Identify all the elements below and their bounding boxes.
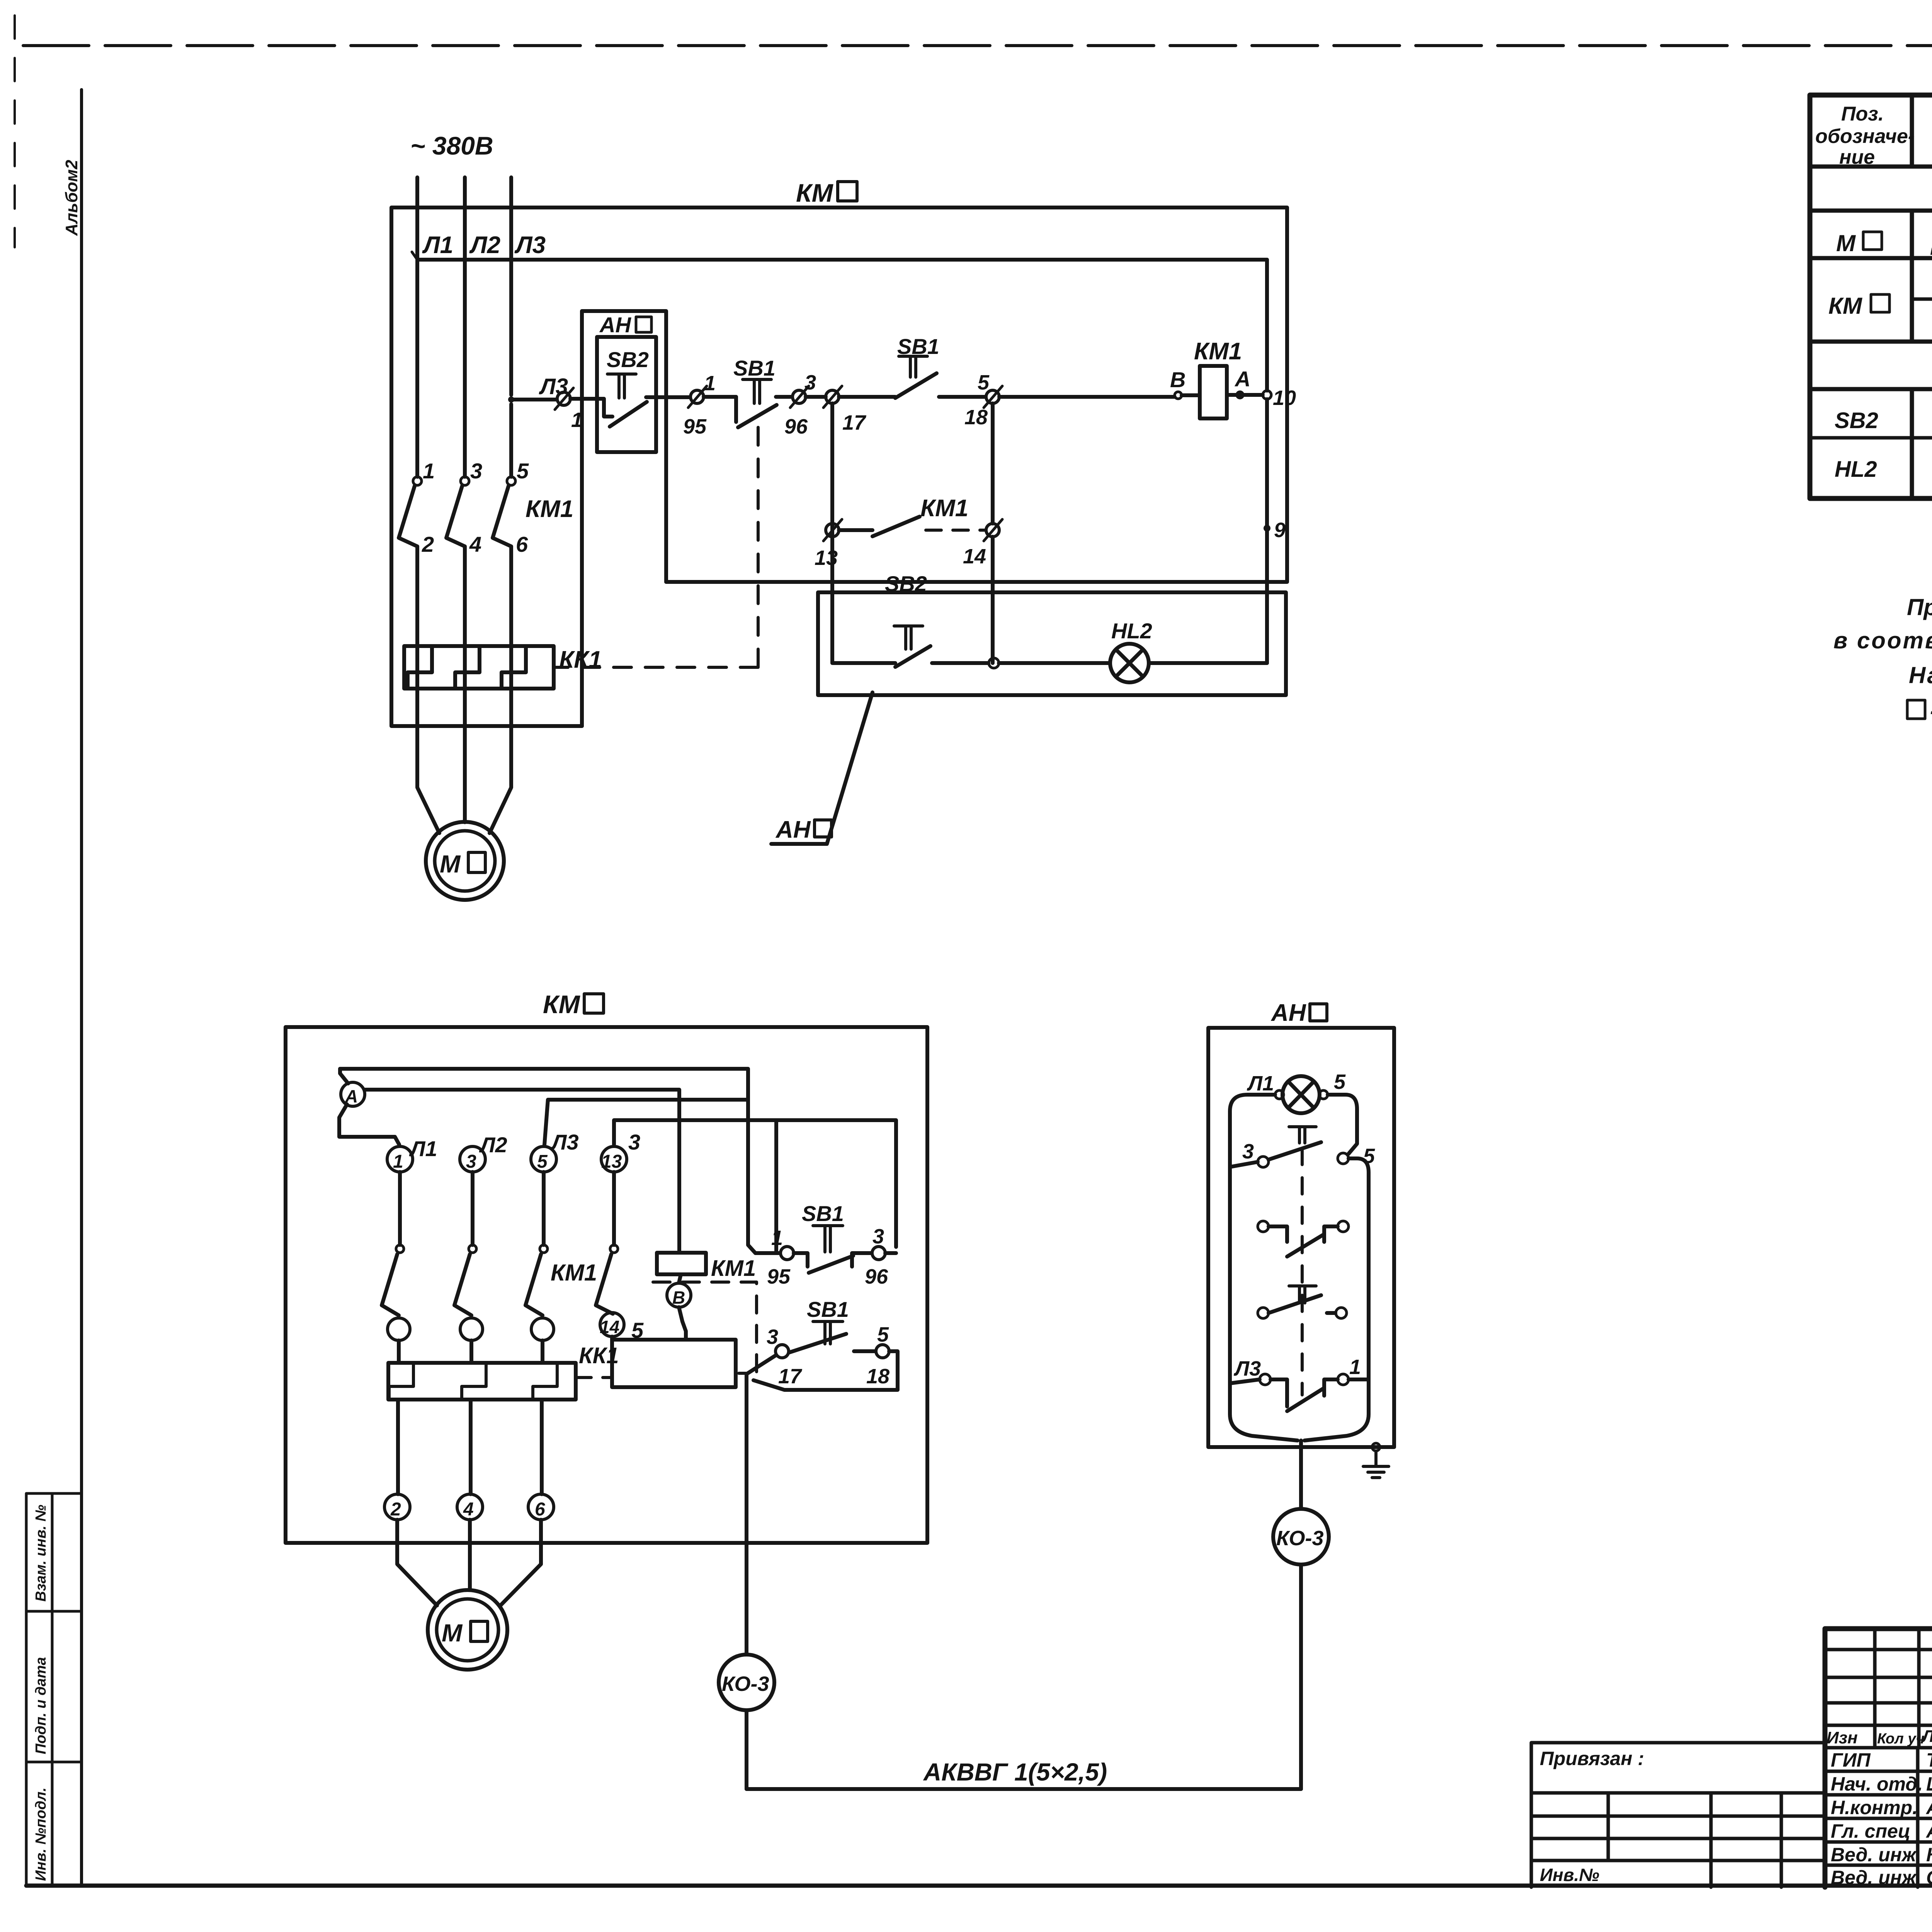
svg-text:- номер привода по однолине: - номер привода по однолинейной схеме . [1930,698,1932,724]
motor M circle bottom [428,1590,507,1670]
wire A up to bus W1 [340,1069,348,1083]
left rail wire [1230,1095,1298,1440]
pole wire 3 down [471,1172,474,1245]
KO-3 circle left [719,1655,774,1710]
SB2 contact step [604,399,612,417]
svg-text:3: 3 [767,1325,778,1349]
row1 wire from rail [1230,1162,1258,1167]
KK1 heater notch phase2 [462,1363,486,1400]
svg-text:Подп. и дата: Подп. и дата [33,1657,49,1754]
wire 95 to SB1 [704,395,736,399]
revision table verticals [1875,1629,1932,1887]
svg-text:HL2: HL2 [1111,619,1152,643]
svg-text:4: 4 [469,532,481,556]
phase line L3 top [509,177,513,395]
svg-text:М: М [440,850,461,878]
svg-text:М: М [1836,230,1856,256]
svg-text:SB2: SB2 [607,347,649,372]
KK1 heater notch phase1 [389,1363,413,1400]
svg-text:SB1: SB1 [733,356,776,380]
svg-text:Афонина: Афонина [1925,1820,1932,1842]
svg-text:обозначе-: обозначе- [1815,125,1915,148]
KM1 aux contact wire left [839,528,872,532]
terminal 1 slash circle [557,392,570,405]
table sub-line катушка split col2 [1912,298,1932,301]
ground terminal circle [1372,1443,1380,1451]
svg-text:Афонина: Афонина [1925,1797,1932,1818]
SB1 start fixed right [939,395,986,399]
svg-text:При монтаже установить пост: При монтаже установить посты управления … [1907,594,1932,620]
wire 17 down to KO-3 [745,1374,748,1655]
svg-text:1: 1 [1349,1355,1361,1379]
wire 17 column down [830,403,834,663]
KM1 main contact 3 [540,1245,548,1253]
wire KO-3 to cable [745,1710,748,1789]
phase line L2 top [463,177,467,477]
svg-text:В: В [672,1287,685,1308]
wire 14 to loop rect [610,1337,614,1340]
contactor coil KM1 [1200,366,1227,418]
pole wire 13 down [612,1172,616,1245]
svg-text:Касырев: Касырев [1926,1844,1932,1866]
junction circle lamp wire [989,658,999,668]
svg-text:АКВВГ 1(5×2,5): АКВВГ 1(5×2,5) [923,1758,1107,1786]
svg-text:1: 1 [393,1151,403,1172]
svg-text:14: 14 [600,1317,619,1337]
KM1 aux blade [872,517,920,536]
row4 wire to rail [1349,1378,1369,1381]
svg-text:Л3: Л3 [539,374,568,399]
contactor pole circle 1 [388,1318,410,1340]
SB1 stop blade [738,405,777,427]
row1 blade [1269,1142,1321,1160]
svg-text:КМ1: КМ1 [526,496,573,522]
svg-text:КО-3: КО-3 [722,1672,769,1696]
terminal 2 circle [384,1494,410,1520]
frame: top border dashed line [23,44,1932,47]
svg-text:4: 4 [463,1499,474,1520]
svg-text:Например - для М1В пост с: Например - для М1В пост с надписью „ АН1… [1909,662,1932,688]
svg-text:Вед. инж: Вед. инж [1831,1844,1917,1866]
wire W2 A to coil [365,1090,679,1253]
terminal 3 circle [460,1146,485,1172]
svg-text:Семашко: Семашко [1926,1867,1932,1888]
svg-text:SB2: SB2 [885,571,927,596]
left stamp boxes [26,1493,81,1886]
row1 plunger [1289,1127,1316,1143]
svg-text:Л1: Л1 [422,232,453,259]
svg-text:3: 3 [872,1225,884,1248]
svg-text:95: 95 [767,1265,791,1288]
AN post outer box [582,311,666,726]
node L3 tap junction [508,396,514,403]
svg-text:КМ1: КМ1 [920,495,968,522]
svg-text:Гл. спец: Гл. спец [1831,1820,1910,1842]
wire 95 row left [755,1251,780,1255]
svg-text:6: 6 [535,1499,545,1520]
svg-text:95: 95 [683,415,707,438]
svg-text:Л1: Л1 [409,1136,437,1161]
svg-text:1: 1 [771,1226,783,1250]
phase line L1 top [415,177,419,477]
wire W1 to SB1 column [340,1069,755,1253]
KM cabinet box bottom diagram [286,1027,927,1543]
wire 96 to 17 [806,395,826,399]
svg-text:Шунский: Шунский [1926,1773,1932,1795]
breaker contact 3-4 [461,477,469,485]
terminal 13 slash circle [826,524,839,537]
lamp sub-box AN [818,592,1286,695]
terminal 96 slash circle [793,390,806,403]
svg-text:Трушин: Трушин [1926,1749,1932,1771]
terminal 6 circle [528,1494,554,1520]
cable run horizontal [747,1787,1301,1791]
svg-text:Л3: Л3 [550,1130,579,1154]
svg-text:18: 18 [964,406,988,429]
wire terminal 13 to 96 loop [614,1120,896,1247]
frame: left border solid line [80,90,83,1886]
motor feed wires [397,1520,541,1605]
node 9 dot [1264,525,1270,532]
terminal 3-96 circle [872,1247,885,1260]
svg-text:3: 3 [628,1130,640,1154]
table row line under по месту [1810,387,1932,391]
SB2 button plunger [607,374,636,398]
svg-text:3: 3 [1242,1140,1254,1163]
wire to lamp [999,661,1110,665]
svg-text:КО-3: КО-3 [1276,1527,1324,1550]
wire B to coil [1182,393,1200,397]
svg-text:Л3: Л3 [514,232,546,259]
KK1 heater notch phase3 [502,646,526,689]
title block outer [1825,1629,1932,1887]
wire KO-3 right to cable [1299,1565,1303,1789]
contact row2 right circle [1338,1221,1349,1232]
SB2 lamp row wire left [833,661,895,665]
phase line L3 lower [490,546,511,833]
row3 dash and circle [1327,1311,1335,1315]
svg-text:А: А [1234,367,1250,391]
svg-text:SB1: SB1 [807,1297,849,1321]
terminal 4 circle [457,1494,483,1520]
pole wire 5 down [542,1172,546,1245]
wire 17 to SB1 start [839,395,895,399]
contact row3 left circle [1258,1308,1269,1318]
SB1 start plunger [899,356,927,377]
terminal 17 slash circle [826,390,839,403]
svg-text:КМ: КМ [1828,293,1863,319]
KK1 heater notch phase2 [455,646,480,689]
lamp circle right post [1282,1076,1320,1113]
vertical wire 10 to lamp line [1265,399,1269,663]
AN post box right [1208,1028,1394,1447]
table column Поз divider [1910,95,1914,498]
contact row4 left circle [1260,1374,1270,1385]
svg-text:5: 5 [978,371,990,394]
svg-text:Л2: Л2 [469,232,500,259]
thermal relay KK1 body [404,646,554,689]
svg-text:10: 10 [1273,386,1296,410]
table row line under У механизма [1810,209,1932,213]
svg-text:6: 6 [516,532,528,556]
contact row4 right circle [1338,1374,1349,1385]
svg-text:5: 5 [537,1151,548,1172]
phase wires KK1 to terminals 2 4 6 [398,1400,542,1494]
svg-text:Двигатель ~ 380 В , КВТ :: Двигатель ~ 380 В , КВТ : А [1930,230,1932,255]
svg-text:АН: АН [1270,1000,1306,1026]
frame: bottom border line [26,1884,1932,1888]
staff table verticals [1918,1748,1932,1887]
svg-text:3: 3 [804,371,816,394]
svg-text:5: 5 [877,1323,889,1346]
terminal 3-17 circle [776,1345,789,1358]
svg-text:Поз.: Поз. [1841,103,1884,125]
svg-text:Инв.№: Инв.№ [1540,1865,1599,1885]
coil bottom stub to B [679,1274,681,1283]
SB1 start blade bottom diagram [789,1334,846,1352]
svg-text:17: 17 [842,411,867,434]
row3 blade [1269,1295,1321,1313]
svg-text:3: 3 [470,459,482,483]
SB1 stop fixed right step [852,1253,872,1267]
coil terminal B circle [1175,392,1182,399]
terminal 1 circle [387,1146,413,1172]
svg-text:КК1: КК1 [579,1343,619,1368]
contact row3 plunger [1289,1286,1316,1303]
control drop wire from bus [1265,260,1269,391]
svg-text:Изн: Изн [1827,1728,1858,1747]
frame: left top dashed remnant [14,15,16,247]
note line 4 square glyph [1907,700,1925,719]
svg-text:Л1: Л1 [1247,1072,1274,1095]
svg-text:13: 13 [601,1151,622,1172]
node L1 bus tick [412,252,417,260]
svg-text:3: 3 [466,1151,476,1172]
contact row2 left circle [1258,1221,1269,1232]
SB1 start blade [895,373,937,398]
row2 contact [1269,1226,1338,1257]
SB1 stop contact step [734,397,738,422]
coil terminal A circle [1237,392,1243,398]
contactor pole circle 2 [460,1318,483,1340]
KM1 main contact 2 [469,1245,476,1253]
svg-text:КМ1: КМ1 [551,1260,597,1286]
SB1 stop plunger bottom diagram [813,1226,843,1252]
SB2 contact blade [610,402,647,427]
wire 18 to coil B [999,395,1175,399]
phase line L1 lower [417,546,439,833]
svg-text:18: 18 [866,1365,889,1388]
motor M circle [426,822,504,900]
SB1 stop blade bottom diagram [809,1256,853,1273]
svg-text:5: 5 [517,459,529,483]
SB1 stop fixed right [776,395,792,399]
svg-text:SB1: SB1 [802,1201,844,1226]
svg-text:Инв. №подл.: Инв. №подл. [33,1787,49,1881]
svg-text:1: 1 [423,459,435,483]
phase line L2 lower [463,546,467,822]
svg-text:М: М [442,1619,463,1647]
KM1 aux contact 4 [610,1245,618,1253]
svg-text:КМ: КМ [796,179,834,207]
terminal A circle [341,1082,365,1106]
mechanical link dashed SB1-KK1 [554,427,758,667]
SB2 lamp row blade [895,646,930,667]
KM1 aux dashed wire to 14 [926,529,985,532]
svg-text:ГИП: ГИП [1831,1749,1871,1771]
SB1 stop plunger [743,379,771,403]
wire terminal to AN box [570,397,604,401]
node 10 circle [1263,391,1271,399]
svg-text:Кол уч: Кол уч [1877,1731,1925,1747]
wire coil A to node 10 [1227,393,1263,397]
dashed link KK1 to loop [576,1376,612,1379]
terminal 1-95 circle [781,1247,794,1260]
mechanical dashed link [1301,1148,1304,1395]
svg-text:~ 380В: ~ 380В [410,131,493,160]
svg-text:2: 2 [422,532,434,556]
svg-text:КМ: КМ [543,990,581,1019]
svg-text:КМ1: КМ1 [711,1256,756,1281]
breaker contact 1-2 [413,477,422,485]
terminal 13 circle [601,1146,627,1172]
svg-text:96: 96 [865,1265,888,1288]
funnel stem [1299,1440,1303,1447]
svg-text:АН: АН [775,816,811,843]
SB1 start fixed right [854,1349,876,1353]
wire loop rect 5-B [612,1340,736,1387]
wire box to KO-3 right [1299,1447,1303,1509]
table row line under header [1810,165,1932,169]
svg-text:Л3: Л3 [1233,1357,1261,1380]
svg-text:ние: ние [1839,146,1875,168]
revision table horizontals [1825,1650,1932,1748]
wire 18 column down [991,403,995,524]
wire B to loop rect [679,1307,686,1340]
svg-text:Лист: Лист [1921,1727,1932,1746]
wire bus from L1 [417,258,1267,262]
row4 wire from rail [1230,1379,1260,1383]
svg-text:КМ1: КМ1 [1194,338,1242,365]
breaker contact 5-6 KM1 [507,477,515,485]
svg-text:96: 96 [784,415,808,438]
svg-text:14: 14 [963,545,986,568]
terminal 18 slash circle [986,390,999,403]
KK1 heater notch phase3 [533,1363,557,1400]
terminal 14 slash circle [986,524,999,537]
coil KM1 rect [657,1253,706,1274]
svg-text:HL2: HL2 [1835,457,1877,482]
lamp terminals [1275,1090,1284,1099]
wire L3 tap to terminal 5 [544,1100,748,1145]
table row line under М row [1810,256,1932,260]
privyazan box [1531,1743,1825,1887]
svg-text:Нач. отд.: Нач. отд. [1831,1773,1923,1795]
AN leader underline and line [771,692,872,844]
svg-text:Взам. инв. №: Взам. инв. № [33,1505,49,1602]
contactor pole circle 3 [531,1318,554,1340]
wire lamp to right column [1149,661,1267,665]
terminal 14 circle [600,1313,624,1337]
wire 96 loop left drop [774,1120,778,1253]
component table outer border [1810,95,1932,498]
wire SB2 to terminal 95 [646,395,690,399]
svg-text:Л2: Л2 [479,1133,507,1157]
ground symbol [1363,1451,1389,1478]
svg-text:в соответствии с надписями: в соответствии с надписями на постах ; [1833,628,1932,653]
svg-text:Привязан :: Привязан : [1540,1748,1644,1769]
terminal 5 circle [531,1146,556,1172]
svg-text:Альбом2: Альбом2 [62,160,81,236]
KM cabinet box outline [391,207,1287,726]
thermal relay KK1 body bottom [388,1363,576,1400]
SB2 inner box [597,337,656,452]
row1 right circle [1338,1153,1349,1164]
svg-text:1: 1 [704,372,716,395]
wire A down to terminal 1 [339,1104,399,1145]
pole wire 1 down [398,1172,402,1245]
wire 95 to SB1 [794,1253,808,1267]
wire 96 to loop column [885,1251,896,1255]
svg-text:9: 9 [1274,519,1286,542]
dashed interlock path [653,1282,757,1373]
svg-text:АН: АН [599,313,631,337]
lamp HL2 [1110,644,1149,682]
SB2 lamp row plunger [894,626,923,649]
terminal 5-18 circle [876,1345,889,1358]
svg-text:13: 13 [815,546,838,570]
svg-text:2: 2 [390,1499,401,1520]
svg-text:Н.контр.: Н.контр. [1831,1797,1918,1818]
SB2 lamp row wire right [932,661,988,665]
wire 17 row: diagonal from circle [747,1355,776,1374]
wire 18 loop [753,1351,898,1390]
pole wires into KK1 [399,1340,543,1363]
right rail wire [1304,1158,1369,1440]
KK1 heater notch phase1 [408,646,432,689]
terminal B circle [667,1283,691,1307]
staff table row lines [1825,1771,1932,1865]
row4 contact [1270,1379,1338,1411]
svg-text:17: 17 [778,1365,803,1388]
SB1 start plunger bottom diagram [813,1321,843,1344]
control wire L3 to terminal [511,398,557,401]
phase L3 middle segment [509,404,513,477]
privyazan box verticals [1608,1793,1781,1887]
terminal 95 slash circle [690,390,704,403]
svg-text:SB2: SB2 [1835,408,1878,433]
right rail top corner [1328,1095,1357,1154]
KO-3 circle right [1273,1509,1329,1565]
KM1 main contact 1 [396,1245,404,1253]
contact row1 left circle [1258,1156,1269,1167]
svg-text:Вед. инж: Вед. инж [1831,1867,1917,1888]
table row line under КМ row [1810,340,1932,344]
svg-text:В: В [1170,367,1185,392]
svg-text:5: 5 [1334,1070,1346,1094]
table sub-line SB2/HL2 split [1810,436,1932,440]
